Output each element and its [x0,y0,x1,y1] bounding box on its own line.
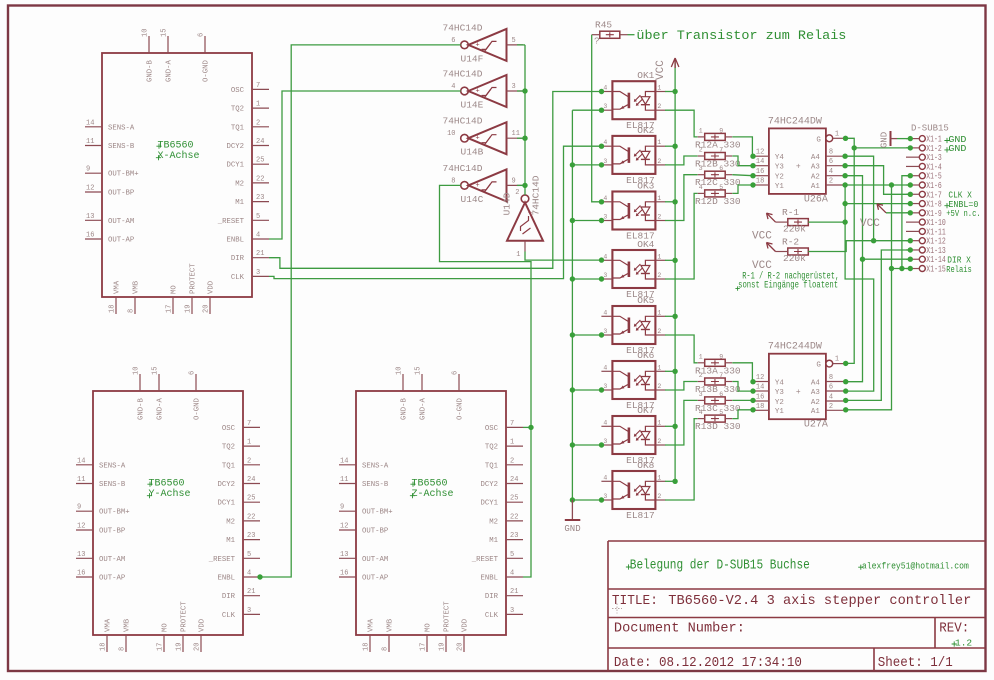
wire R12C to U26A Y2 [732,173,755,178]
svg-text:6: 6 [451,37,455,45]
svg-text:3: 3 [603,103,607,110]
svg-text:8: 8 [451,177,455,185]
svg-text:TQ1: TQ1 [231,124,245,132]
svg-text:OUT-BP: OUT-BP [108,190,134,198]
svg-text:74HC14D: 74HC14D [443,69,483,80]
svg-text:REV:: REV: [939,621,969,637]
svg-text:OK8: OK8 [637,460,654,471]
svg-text:M2: M2 [235,180,244,188]
wire R13D to U27A Y1 [732,407,755,419]
svg-text:18: 18 [100,643,108,651]
wire VCC bus to opto pin1 [665,425,675,427]
svg-text:?: ? [594,36,600,47]
svg-text:10: 10 [142,29,150,37]
svg-text:2: 2 [657,493,661,500]
svg-text:O-GND: O-GND [457,397,465,420]
svg-text:220k: 220k [783,253,806,264]
svg-text:2: 2 [657,272,661,279]
svg-text:3: 3 [603,493,607,500]
svg-text:GND-A: GND-A [420,397,428,420]
svg-text:sonst Eingänge floatent: sonst Eingänge floatent [738,280,838,291]
wire net relay (R45 to OK3 collector) [592,35,605,205]
svg-text:4: 4 [451,83,455,91]
wire net X1-6 column to U27A A1 [843,185,894,412]
svg-text:25: 25 [247,495,255,503]
svg-text:+: + [476,41,480,49]
svg-text:OK6: OK6 [637,350,654,361]
svg-text:_RESET: _RESET [217,218,245,226]
svg-text:1: 1 [699,127,703,134]
svg-text:O-GND: O-GND [194,397,202,420]
wire net Z-ENBL (U14C out to Z ENBL and Z OSC) [440,185,534,577]
svg-text:M1: M1 [235,199,244,207]
svg-text:OSC: OSC [222,425,236,433]
svg-text:8: 8 [829,374,833,382]
svg-text:4: 4 [603,139,607,146]
svg-text:1: 1 [510,439,514,447]
net label ENBL=0 [944,203,949,208]
svg-text:3: 3 [699,165,703,172]
svg-text:1: 1 [657,364,661,371]
connector pin X1-14 [906,255,946,265]
svg-text:MO: MO [425,623,433,632]
wire GND bus to opto pin3 [572,387,604,392]
svg-text:2: 2 [657,328,661,335]
svg-text:9: 9 [340,504,344,512]
svg-text:4: 4 [829,394,833,402]
svg-text:_RESET: _RESET [208,556,236,564]
connector pin X1-7 [906,190,942,200]
svg-text:EL817: EL817 [626,510,655,521]
resistor R13D 330 [698,409,733,422]
resistor R-1 220k [776,207,809,235]
net label GND at X1-1 [944,138,949,143]
svg-text:DCY2: DCY2 [480,481,498,489]
svg-text:VCC: VCC [752,231,772,243]
connector pin X1-6 [906,181,942,191]
wire VCC bus to opto pin1 [665,201,675,203]
svg-text:Y2: Y2 [775,399,784,407]
svg-text:A1: A1 [811,408,821,416]
wire VCC bus to opto pin1 [665,91,675,93]
svg-text:2: 2 [256,119,260,127]
svg-text:DIR: DIR [485,593,499,601]
svg-text:R45: R45 [595,20,612,31]
svg-text:2: 2 [515,189,519,197]
wire net X1-13 to U27A A2 [843,247,913,403]
svg-text:3: 3 [699,391,703,398]
resistor R12A 330 [698,127,733,140]
connector pin X1-11 [906,227,946,237]
svg-text:5: 5 [510,551,514,559]
svg-text:21: 21 [256,250,264,258]
wire VCC bus to opto pin1 [665,315,675,317]
svg-text:2: 2 [699,372,703,379]
VCC supply arrow (top of opto bus) [655,58,679,80]
svg-text:R-2: R-2 [782,237,799,248]
resistor R13A 330 [698,353,733,366]
svg-text:OUT-AM: OUT-AM [362,556,388,564]
svg-text:U27A: U27A [804,420,828,431]
svg-text:16: 16 [756,168,764,176]
svg-text:15: 15 [415,367,423,375]
svg-text:X1-15: X1-15 [926,265,946,275]
svg-text:2: 2 [247,457,251,465]
svg-text:9: 9 [86,166,90,174]
wire X1-14 row [863,257,914,262]
wire VCC bus to opto pin1 [665,480,675,482]
svg-text:GND: GND [880,132,890,148]
svg-text:DCY1: DCY1 [480,500,498,508]
svg-text:M2: M2 [489,518,498,526]
wire GND bus to opto pin3 [572,332,604,337]
title block frame [608,541,985,671]
wire R13B to U27A Y3 [732,382,755,394]
svg-text:4: 4 [256,232,260,240]
wire OK7 pin2 to R13C [665,400,698,445]
svg-text:O-GND: O-GND [203,59,211,82]
svg-text:18: 18 [756,178,764,186]
resistor R12B 330 [698,147,733,160]
svg-text:20: 20 [194,643,202,651]
wire GND bus to opto pin3 [572,108,604,113]
svg-text:CLK: CLK [485,612,499,620]
svg-text:22: 22 [256,175,264,183]
svg-text:Sheet: 1/1: Sheet: 1/1 [878,655,953,671]
wire R-1 to ENBL column [808,221,845,223]
wire U26A A4 to X1-12 column [842,154,876,244]
connector pin X1-3 [906,153,942,163]
svg-text:2: 2 [657,158,661,165]
optocoupler OK1 EL817 [601,70,665,131]
svg-text:3: 3 [256,269,260,277]
svg-text:X-Achse: X-Achse [158,150,200,162]
svg-text:Y3: Y3 [775,389,785,397]
optocoupler OK4 EL817 [601,239,665,300]
svg-text:VMA: VMA [368,618,376,632]
svg-text:13: 13 [340,551,348,559]
svg-text:TQ2: TQ2 [485,444,498,452]
svg-text:alexfrey51@hotmail.com: alexfrey51@hotmail.com [862,561,969,572]
svg-text:1: 1 [256,101,260,109]
svg-text:13: 13 [86,213,94,221]
svg-text:23: 23 [510,532,518,540]
svg-text:11: 11 [340,476,348,484]
wire inverter input join [517,44,525,46]
svg-text:19: 19 [439,643,447,651]
optocoupler OK5 EL817 [601,295,665,356]
svg-text:OK2: OK2 [637,125,654,136]
svg-text:1: 1 [657,419,661,426]
svg-text:4: 4 [603,309,607,316]
wire R12D to U26A Y1 [732,182,755,193]
svg-text:Z-Achse: Z-Achse [412,488,454,500]
svg-text:U14B: U14B [461,147,484,158]
wire GND bus to opto pin3 [572,276,604,281]
VCC supply arrow at X1-9 [860,204,886,230]
svg-text:TQ2: TQ2 [222,444,235,452]
wire GND bus to opto pin3 [572,497,604,502]
svg-text:12: 12 [77,523,85,531]
inverter U14E 74HC14D [443,69,524,111]
inverter U14C 74HC14D [443,163,524,205]
svg-text:9: 9 [719,353,723,360]
IC TB6560 Z-Achse [339,367,523,652]
svg-text:6: 6 [198,33,206,37]
svg-text:18: 18 [109,305,117,313]
svg-text:1: 1 [699,353,703,360]
svg-text:6: 6 [719,165,723,172]
IC U26A 74HC244DW [753,116,846,205]
svg-text:OK7: OK7 [637,405,654,416]
wire net GND bus (opto emitters) [570,110,575,503]
svg-text:16: 16 [756,394,764,402]
title block text Belegung der D-SUB15 Buchse [626,564,631,569]
svg-text:PROTECT: PROTECT [190,263,198,294]
svg-text:3: 3 [247,607,251,615]
svg-text:A4: A4 [811,154,821,162]
svg-text:6: 6 [829,158,833,166]
svg-text:SENS-A: SENS-A [362,462,389,470]
svg-text:OUT-AM: OUT-AM [99,556,125,564]
svg-text:22: 22 [510,513,518,521]
svg-text:OUT-AP: OUT-AP [99,575,125,583]
svg-text:DCY1: DCY1 [217,500,235,508]
svg-text:_RESET: _RESET [471,556,499,564]
svg-text:20: 20 [203,305,211,313]
svg-text:1.2: 1.2 [955,638,972,649]
title block text alexfrey51 email [858,565,863,570]
svg-text:25: 25 [510,495,518,503]
connector pin X1-1 [906,135,942,145]
wire VCC bus to opto pin1 [665,370,675,372]
svg-text:TQ2: TQ2 [231,106,244,114]
svg-text:12: 12 [86,185,94,193]
svg-text:25: 25 [256,157,264,165]
svg-text:+: + [796,388,801,397]
svg-text:D-SUB15: D-SUB15 [911,124,949,134]
svg-text:U14C: U14C [461,194,484,205]
svg-text:TQ1: TQ1 [485,462,499,470]
svg-text:11: 11 [86,138,94,146]
svg-text:23: 23 [256,194,264,202]
svg-text:OSC: OSC [485,425,499,433]
svg-text:4: 4 [603,85,607,92]
svg-text:17: 17 [166,305,174,313]
wire net ENBL=0 (A1/X1-8/R-1/U27A A3) [842,185,873,394]
svg-text:13: 13 [77,551,85,559]
resistor R12D 330 [698,184,733,197]
optocoupler OK3 EL817 [601,181,665,242]
svg-text:3: 3 [603,214,607,221]
svg-text:PROTECT: PROTECT [181,601,189,632]
svg-text:5: 5 [256,213,260,221]
svg-text:Document Number:: Document Number: [614,621,745,637]
svg-text:2: 2 [829,178,833,186]
svg-text:SENS-A: SENS-A [108,124,135,132]
svg-text:R12D 330: R12D 330 [695,196,741,207]
svg-text:CLK: CLK [222,612,236,620]
resistor R12C 330 [698,165,733,178]
wire X1-15 row [892,266,914,271]
svg-text:Y3: Y3 [775,164,785,172]
wire net X-ENBL (U14E out to X ENBL pin) [269,91,461,239]
wire X1-9 +5V row [886,210,913,215]
svg-text:1: 1 [835,356,839,364]
svg-text:MO: MO [162,623,170,632]
svg-text:OUT-BM+: OUT-BM+ [99,509,130,517]
svg-text:15: 15 [152,367,160,375]
svg-text:A2: A2 [811,399,820,407]
wire GND bus to opto pin3 [572,442,604,447]
svg-text:6: 6 [719,391,723,398]
svg-text:Belegung der D-SUB15 Buchse: Belegung der D-SUB15 Buchse [630,559,810,574]
svg-text:20: 20 [457,643,465,651]
svg-text:18: 18 [756,403,764,411]
svg-text:GND-B: GND-B [147,59,155,82]
svg-text:OUT-BM+: OUT-BM+ [362,509,393,517]
svg-text:21: 21 [247,588,255,596]
wire net CLK X (X CLK pin to OK2 collector) [269,144,604,279]
svg-text:VCC: VCC [655,60,667,80]
svg-text:12: 12 [756,374,764,382]
svg-text:Date: 08.12.2012 17:34:10: Date: 08.12.2012 17:34:10 [614,655,802,671]
svg-text:3: 3 [510,607,514,615]
svg-text:10: 10 [396,367,404,375]
wire R13A to U27A Y4 [732,363,755,385]
wire net U14D input from OK4 collector [525,252,604,263]
svg-text:7: 7 [510,420,514,428]
svg-text:1: 1 [657,309,661,316]
svg-text:A2: A2 [811,174,820,182]
svg-text:14: 14 [756,384,764,392]
VCC supply arrow at R-2 [752,243,776,273]
svg-text:DCY1: DCY1 [226,162,244,170]
svg-text:16: 16 [77,570,85,578]
svg-text:16: 16 [340,570,348,578]
svg-text:VMA: VMA [114,280,122,294]
svg-text:Y1: Y1 [775,183,785,191]
svg-text:GND-A: GND-A [166,59,174,82]
svg-text:5: 5 [247,551,251,559]
svg-text:12: 12 [756,149,764,157]
svg-text:TB6560: TB6560 [158,141,194,152]
svg-text:9: 9 [512,177,516,185]
svg-text:DCY2: DCY2 [226,143,244,151]
svg-text:3: 3 [512,83,516,91]
svg-text:6: 6 [189,371,197,375]
svg-text:TB6560: TB6560 [149,479,185,490]
svg-text:1: 1 [516,251,520,259]
svg-text:CLK: CLK [231,274,245,282]
svg-text:Y1: Y1 [775,408,785,416]
svg-text:ENBL: ENBL [226,237,244,245]
svg-text:5: 5 [719,184,723,191]
svg-text:10: 10 [447,130,455,138]
svg-text:PROTECT: PROTECT [444,601,452,632]
svg-text:12: 12 [340,523,348,531]
svg-text:18: 18 [363,643,371,651]
wire net GND tie (U26A G, U27A G, X1-2) [843,136,857,366]
svg-text:Y4: Y4 [775,379,785,387]
svg-text:7: 7 [256,82,260,90]
svg-text:A3: A3 [811,164,821,172]
svg-text:SENS-B: SENS-B [99,481,126,489]
svg-text:GND-B: GND-B [138,397,146,420]
svg-text:6: 6 [829,384,833,392]
svg-text:74HC244DW: 74HC244DW [768,116,822,127]
svg-text:TITLE:: TITLE: [612,593,658,609]
svg-text:ENBL: ENBL [480,575,498,583]
net label GND at X1-2 [944,147,949,152]
svg-text:17: 17 [157,643,165,651]
svg-text:OSC: OSC [231,87,245,95]
svg-text:11: 11 [77,476,85,484]
svg-text:M1: M1 [226,537,235,545]
svg-text:Relais: Relais [946,264,972,275]
svg-text:+: + [476,88,480,96]
svg-text:10: 10 [133,367,141,375]
inverter U14F 74HC14D [443,22,524,64]
svg-text:11: 11 [512,130,520,138]
svg-text:15: 15 [161,29,169,37]
svg-text:2: 2 [699,147,703,154]
svg-text:9: 9 [77,504,81,512]
IC TB6560 X-Achse [85,29,269,314]
svg-text:GND: GND [948,143,966,154]
ground symbol GND at X1-1 [880,131,898,148]
connector pin X1-13 [906,246,946,256]
wire inverter input join [517,184,525,186]
wire U26A A2 to X1-14 column and U27A A4 [842,173,865,384]
svg-text:SENS-B: SENS-B [362,481,389,489]
svg-text:74HC14D: 74HC14D [443,163,483,174]
svg-text:G: G [816,136,821,144]
wire net U14D output bus to inverter inputs [522,45,527,195]
svg-text:3: 3 [603,383,607,390]
wire GND bus to opto pin3 [572,218,604,223]
svg-text:R-1: R-1 [782,207,799,218]
svg-text:8: 8 [119,647,127,651]
svg-text:2: 2 [657,438,661,445]
svg-text:6: 6 [452,371,460,375]
svg-text:TQ1: TQ1 [222,462,236,470]
svg-text:MO: MO [171,285,179,294]
optocoupler OK8 EL817 [601,460,665,521]
svg-text:G: G [816,362,821,370]
svg-text:14: 14 [77,457,85,465]
svg-text:74HC244DW: 74HC244DW [768,342,822,353]
svg-text:OK3: OK3 [637,181,654,192]
svg-text:M2: M2 [226,518,235,526]
svg-text:24: 24 [256,138,264,146]
svg-text:A3: A3 [811,389,821,397]
wire X1-2 GND row [854,145,913,150]
svg-text:74HC14D: 74HC14D [531,175,542,215]
svg-text:19: 19 [176,643,184,651]
svg-text:4: 4 [247,570,251,578]
wire OK1 pin2 to R12A [665,110,698,137]
svg-text:4: 4 [603,195,607,202]
resistor R13C 330 [698,391,733,404]
svg-text:1: 1 [657,253,661,260]
svg-text:OUT-BP: OUT-BP [99,528,125,536]
svg-text:U26A: U26A [804,194,828,205]
svg-text:OUT-AP: OUT-AP [108,237,134,245]
svg-text:A1: A1 [811,183,821,191]
wire X1-8 row [845,201,913,206]
svg-text:OUT-AP: OUT-AP [362,575,388,583]
